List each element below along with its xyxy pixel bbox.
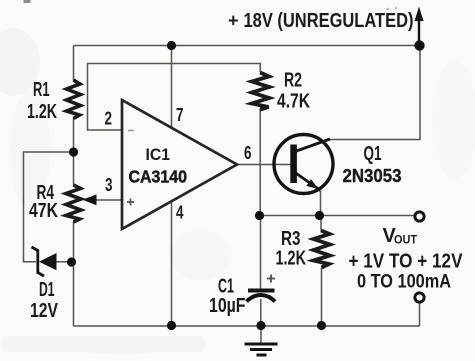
transistor Q1 collector diagonal xyxy=(295,139,330,152)
op-amp minus marker xyxy=(128,130,134,132)
svg-text:0 TO 100mA: 0 TO 100mA xyxy=(357,271,451,293)
svg-text:12V: 12V xyxy=(30,300,59,322)
svg-text:1.2K: 1.2K xyxy=(276,248,307,270)
svg-text:+ 1V TO + 12V: + 1V TO + 12V xyxy=(349,251,464,273)
svg-text:D1: D1 xyxy=(39,279,55,301)
node: R3 ground junction xyxy=(317,321,326,330)
svg-text:IC1: IC1 xyxy=(146,145,171,164)
node: pin4 ground junction xyxy=(167,321,176,330)
resistor R2 zigzag xyxy=(252,73,269,110)
ground symbol xyxy=(245,344,278,355)
node B: zener anode junction xyxy=(67,257,76,266)
svg-text:2N3053: 2N3053 xyxy=(343,165,402,186)
svg-text:R2: R2 xyxy=(284,70,302,92)
resistor R3 zigzag xyxy=(314,231,331,268)
wire: right drop to lower terminal xyxy=(419,302,421,326)
capacitor C1 top plate xyxy=(248,289,275,293)
svg-text:47K: 47K xyxy=(29,200,58,222)
capacitor C1 plus sign xyxy=(267,275,275,283)
wire: collector riser at right xyxy=(330,46,420,140)
node: emitter output junction xyxy=(315,211,324,220)
resistor R1 zigzag xyxy=(67,80,81,119)
op-amp U1 triangle xyxy=(122,100,237,229)
op-amp plus marker xyxy=(127,199,134,206)
output terminal upper xyxy=(415,212,424,221)
wire: left loop node A to zener cathode xyxy=(24,152,74,262)
svg-text:4: 4 xyxy=(176,202,184,223)
wire: pin 3 wire from pot wiper xyxy=(96,199,123,201)
wire: R4 bottom to node B xyxy=(73,222,75,263)
wire: output node horizontal to Vout terminal xyxy=(260,215,420,217)
+18V arrow up xyxy=(418,14,420,46)
svg-text:6: 6 xyxy=(244,142,252,163)
potentiometer R4 wiper arrow xyxy=(83,194,97,205)
svg-text:OUT: OUT xyxy=(394,235,417,247)
wire: R1 top stub xyxy=(73,46,75,81)
capacitor C1 curved bottom plate xyxy=(247,295,276,302)
zener diode D1 cathode bar xyxy=(32,247,45,276)
zener diode D1 anode triangle xyxy=(39,253,57,270)
svg-text:7: 7 xyxy=(176,104,184,125)
node A: R1/R4/loop junction xyxy=(69,147,78,156)
svg-text:4.7K: 4.7K xyxy=(277,91,310,113)
svg-text:CA3140: CA3140 xyxy=(129,167,188,187)
transistor Q1 circle xyxy=(274,135,333,194)
wire: ground symbol stub xyxy=(260,326,262,344)
wire: emitter stub down to output node xyxy=(320,191,322,216)
wire: zener anode to node B xyxy=(56,261,72,263)
wire: pin 7 stub xyxy=(171,46,173,129)
node: ground symbol junction xyxy=(256,321,265,330)
wire: pin 4 stub to ground rail xyxy=(171,202,173,326)
svg-text:1.2K: 1.2K xyxy=(27,101,57,123)
svg-text:R1: R1 xyxy=(33,79,50,101)
wire: C1 bottom stub xyxy=(260,299,262,326)
output terminal lower xyxy=(415,293,424,302)
wire: R2 bottom down to output node xyxy=(259,109,261,216)
node: top rail to pin7 junction xyxy=(167,41,176,50)
svg-text:10µF: 10µF xyxy=(209,295,246,317)
wire: top +18V rail xyxy=(74,45,420,47)
wire: node B down to ground rail xyxy=(73,262,75,326)
wire: pin 6 to Q1 base xyxy=(237,164,291,166)
svg-text:Q1: Q1 xyxy=(364,143,382,165)
wire: R3 bottom stub to ground rail xyxy=(321,268,323,326)
transistor Q1 emitter arrow xyxy=(306,179,318,189)
svg-text:2: 2 xyxy=(105,108,113,129)
svg-text:+: + xyxy=(228,11,239,31)
transistor Q1 base bar xyxy=(290,145,297,184)
wire: bottom ground rail xyxy=(74,325,420,327)
node: top right corner junction xyxy=(414,40,424,50)
node: R2/C1 output junction xyxy=(255,211,264,220)
wire: R1 bottom to R4 top xyxy=(73,118,75,186)
wire: R3 top stub xyxy=(320,216,322,231)
wire: feedback line pin2 to R2 top xyxy=(88,64,261,131)
scan speck top edge xyxy=(24,0,31,3)
wire: C1 top stub xyxy=(260,216,262,290)
svg-text:18V (UNREGULATED): 18V (UNREGULATED) xyxy=(244,10,414,32)
transistor Q1 emitter diagonal xyxy=(295,173,321,191)
svg-text:3: 3 xyxy=(105,174,113,195)
potentiometer R4 zigzag xyxy=(66,185,81,222)
